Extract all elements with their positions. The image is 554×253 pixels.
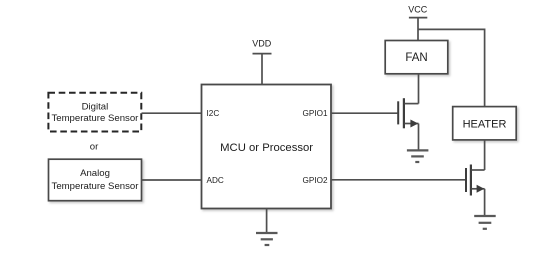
pin label GPIO1 — [302, 109, 327, 118]
transistor Q2 drain lead — [472, 169, 485, 171]
wire I2C: digital sensor to MCU — [142, 112, 202, 114]
pin label I2C — [207, 109, 220, 118]
svg-text:MCU or Processor: MCU or Processor — [220, 142, 313, 154]
transistor Q2 (NMOS) gate bar — [465, 168, 467, 192]
MCU or Processor block U1 — [202, 85, 332, 209]
wire VCC branch to HEATER — [418, 29, 485, 106]
wire VDD to MCU — [261, 54, 263, 85]
ground (Q1 source) — [407, 150, 429, 162]
ground (Q2 source) — [474, 216, 496, 229]
svg-text:ADC: ADC — [207, 176, 224, 185]
transistor Q1 source lead with arrow — [405, 120, 419, 128]
svg-text:VCC: VCC — [408, 4, 428, 14]
transistor Q1 drain lead — [405, 103, 419, 105]
wire HEATER to Q2 drain — [484, 140, 486, 170]
transistor Q2 source lead with arrow — [472, 185, 485, 193]
wire ADC: analog sensor to MCU — [142, 179, 202, 181]
svg-text:GPIO1: GPIO1 — [302, 109, 327, 118]
svg-text:Temperature Sensor: Temperature Sensor — [51, 113, 139, 124]
transistor Q2 channel bar — [470, 165, 472, 196]
svg-text:Temperature Sensor: Temperature Sensor — [52, 181, 140, 192]
svg-text:Analog: Analog — [80, 168, 110, 179]
wire GPIO1 to Q1 gate — [331, 112, 397, 114]
svg-text:GPIO2: GPIO2 — [302, 176, 327, 185]
svg-text:or: or — [90, 142, 99, 153]
svg-text:Digital: Digital — [82, 102, 109, 113]
box: FAN — [385, 41, 448, 74]
power VDD label — [252, 38, 272, 48]
wire FAN to Q1 drain — [418, 74, 420, 104]
power VCC label — [408, 4, 428, 14]
svg-text:FAN: FAN — [405, 52, 427, 64]
wire Q2 source to ground — [484, 189, 486, 216]
transistor Q1 (NMOS) gate bar — [397, 101, 399, 124]
svg-text:HEATER: HEATER — [463, 119, 507, 131]
box: Digital Temperature Sensor (dashed) — [48, 93, 141, 132]
VDD rail bar — [253, 53, 272, 55]
VCC rail bar — [409, 17, 427, 19]
pin label GPIO2 — [302, 176, 327, 185]
ground (MCU) — [256, 233, 278, 245]
wire GPIO2 to Q2 gate — [331, 179, 465, 181]
wire Q1 source to ground — [418, 124, 420, 151]
box: HEATER — [453, 107, 517, 140]
svg-text:I2C: I2C — [207, 109, 220, 118]
label "or" — [90, 142, 99, 153]
pin label ADC — [207, 176, 224, 185]
wire VCC to FAN — [417, 18, 419, 41]
wire MCU to ground — [266, 209, 268, 233]
label MCU or Processor — [220, 142, 313, 154]
svg-text:VDD: VDD — [252, 38, 272, 48]
transistor Q1 channel bar — [403, 98, 405, 128]
box: Analog Temperature Sensor — [49, 159, 142, 201]
